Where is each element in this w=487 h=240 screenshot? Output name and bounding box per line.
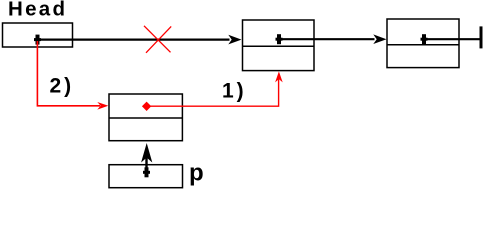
svg-text:Head: Head bbox=[8, 0, 67, 21]
svg-text:1): 1) bbox=[222, 80, 247, 103]
svg-text:p: p bbox=[189, 159, 204, 186]
svg-text:2): 2) bbox=[50, 75, 75, 98]
